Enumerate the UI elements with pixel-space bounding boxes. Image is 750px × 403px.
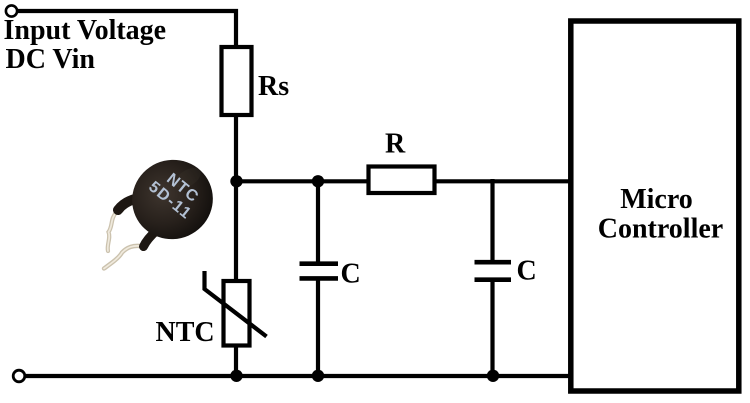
input terminal top-left	[6, 5, 17, 16]
node: junction capacitor C1 top	[312, 175, 324, 187]
node: C1 bottom junction	[312, 370, 324, 382]
capacitor C2 wire top	[490, 179, 494, 263]
output terminal bottom-left	[13, 370, 25, 382]
capacitor C2 plates	[475, 260, 512, 265]
svg-text:Controller: Controller	[598, 214, 723, 245]
resistor Rs	[222, 47, 252, 115]
capacitor C1 plates	[300, 261, 339, 266]
wire: junction to microcontroller (horizontal)	[236, 179, 571, 183]
svg-text:Micro: Micro	[620, 184, 693, 215]
resistor R	[369, 167, 435, 194]
svg-text:C: C	[341, 259, 361, 290]
node: junction Rs/NTC/R	[230, 175, 242, 187]
thermistor NTC symbol diagonal	[205, 271, 267, 337]
wire: top terminal to resistor Rs	[17, 11, 236, 48]
capacitor C2 wire bottom	[490, 279, 494, 377]
microcontroller box U1	[571, 21, 739, 391]
wire: bottom rail	[25, 374, 571, 378]
thermistor photo NTC 5D-11	[104, 147, 226, 269]
svg-text:C: C	[517, 255, 537, 286]
svg-text:Rs: Rs	[258, 71, 289, 102]
capacitor C1 wire top	[316, 181, 320, 265]
svg-text:R: R	[385, 129, 406, 160]
thermistor NTC symbol body	[224, 281, 250, 346]
svg-text:DC Vin: DC Vin	[6, 44, 96, 75]
wire: Rs to NTC symbol	[234, 115, 238, 283]
capacitor C1 wire bottom	[316, 278, 320, 377]
svg-text:NTC: NTC	[156, 317, 215, 348]
wire: NTC symbol to bottom rail	[234, 345, 238, 377]
svg-text:Input Voltage: Input Voltage	[4, 15, 167, 46]
node: NTC bottom junction	[230, 370, 242, 382]
node: C2 bottom junction	[487, 370, 499, 382]
